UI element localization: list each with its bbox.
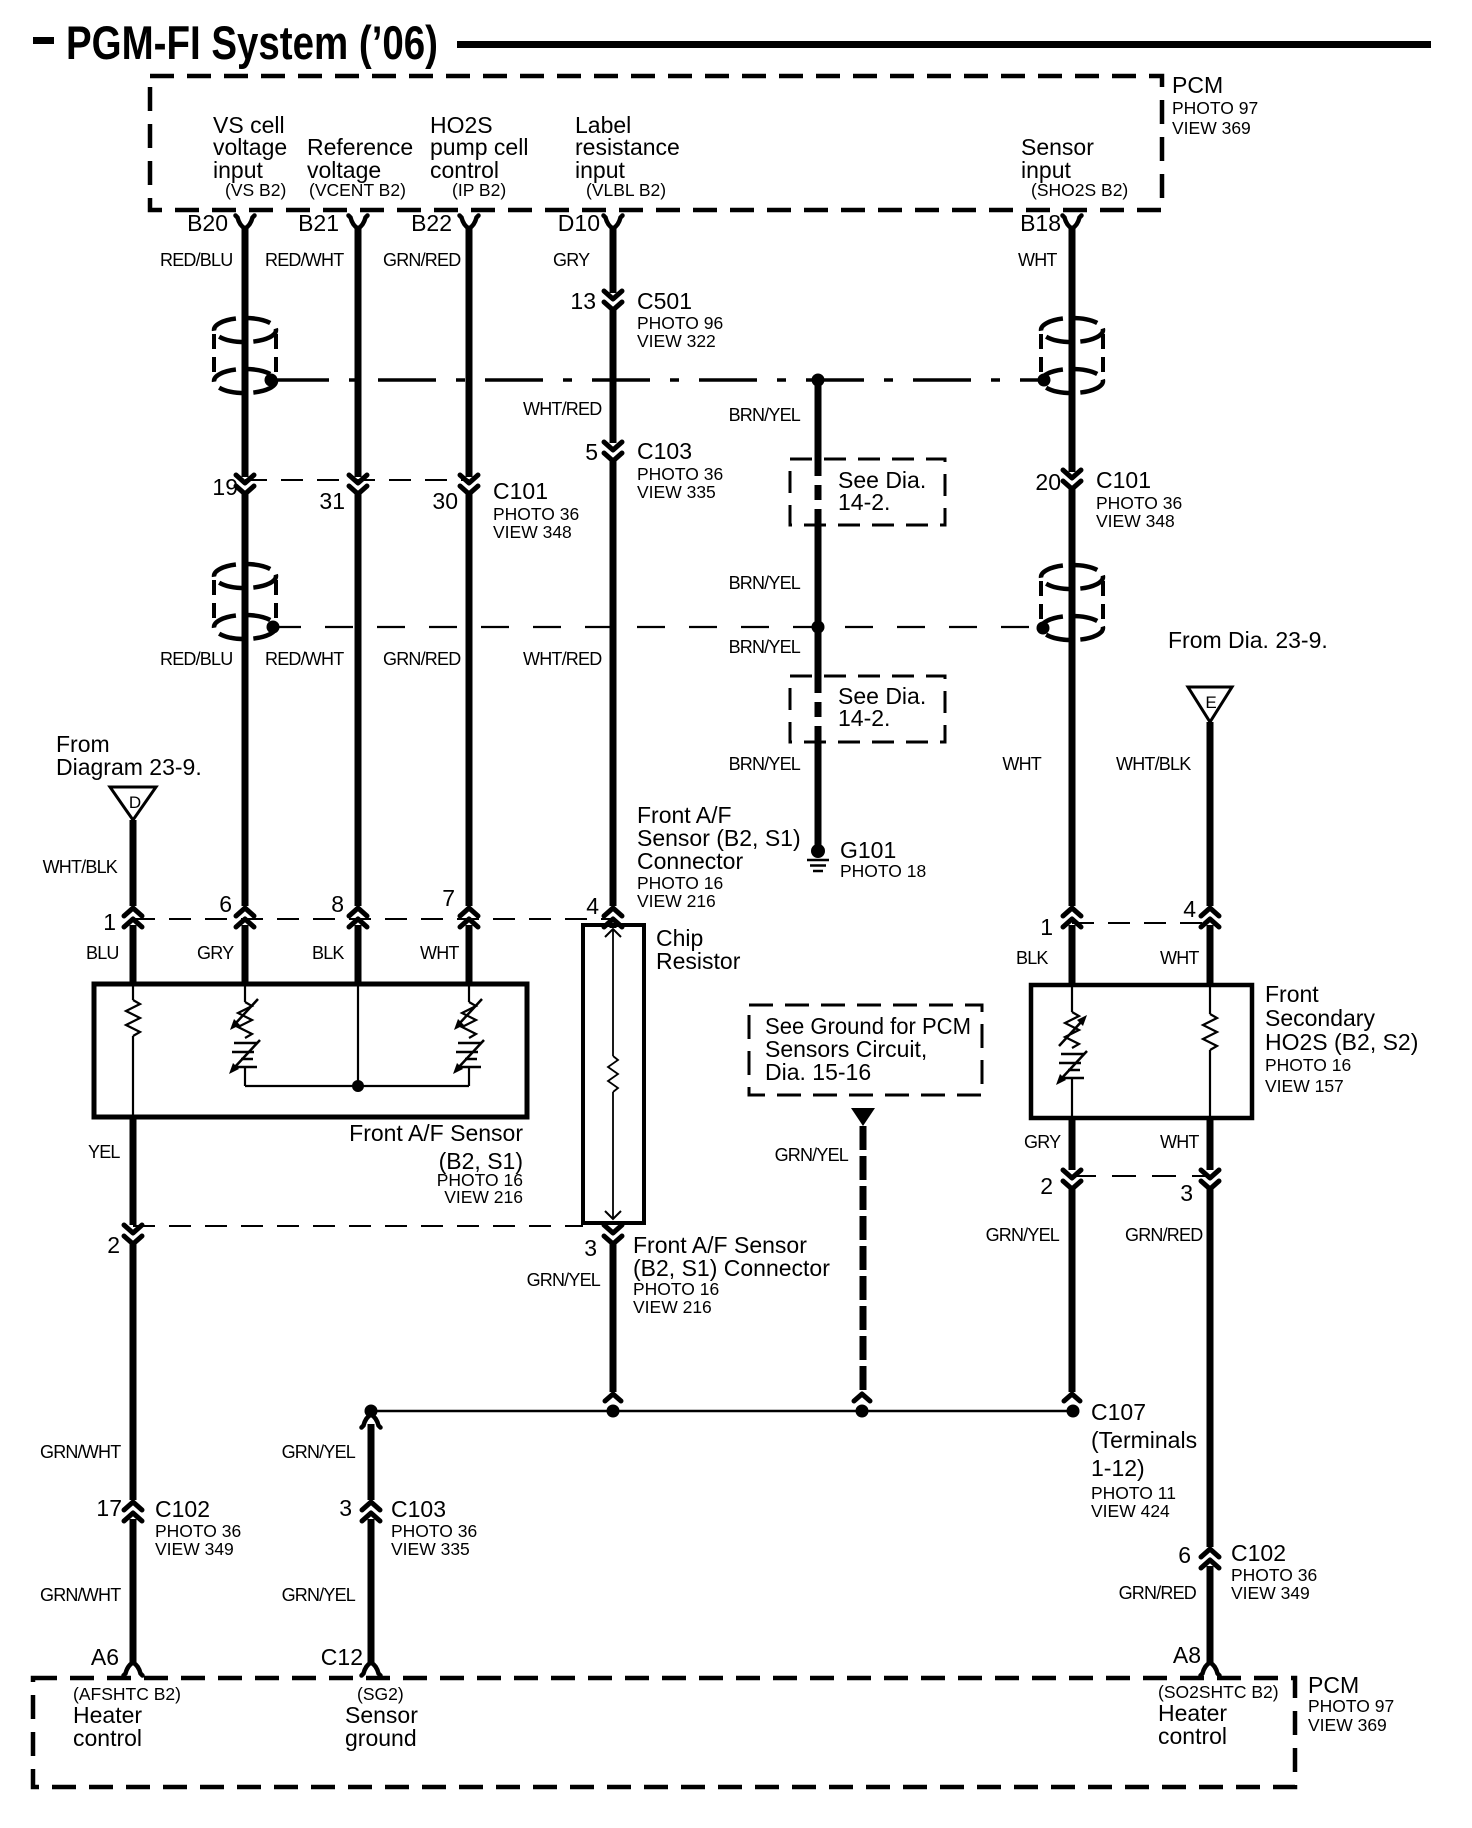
connector C102 label (left) (155, 1496, 241, 1559)
connector C101 label (left) (493, 478, 579, 542)
svg-text:GRN/WHT: GRN/WHT (40, 1585, 121, 1605)
Front A/F Sensor box (94, 984, 527, 1117)
connector C103 label (upper) (637, 438, 723, 502)
wire E segment to HO2S box (1207, 925, 1214, 985)
junction dot BRN/YEL tap (812, 374, 825, 387)
svg-text:3: 3 (1180, 1180, 1193, 1206)
sensor pin row chevrons: pin 8 (B21) (349, 908, 367, 927)
svg-text:WHT/BLK: WHT/BLK (1116, 754, 1191, 774)
svg-text:GRY: GRY (1024, 1132, 1061, 1152)
svg-text:VIEW 322: VIEW 322 (637, 331, 716, 351)
pin B18 terminal fork (1063, 216, 1082, 229)
svg-text:BRN/YEL: BRN/YEL (729, 754, 801, 774)
svg-text:Front A/F Sensor: Front A/F Sensor (349, 1120, 523, 1146)
wire D segment to sensor box (130, 925, 137, 984)
svg-text:YEL: YEL (88, 1142, 120, 1162)
svg-text:VIEW 157: VIEW 157 (1265, 1076, 1344, 1096)
svg-text:C103: C103 (637, 438, 692, 464)
Front A/F Sensor connector label (lower) (633, 1232, 830, 1317)
svg-text:7: 7 (442, 885, 455, 911)
svg-text:GRN/YEL: GRN/YEL (527, 1270, 601, 1290)
svg-text:(VLBL B2): (VLBL B2) (586, 180, 666, 200)
svg-text:Resistor: Resistor (656, 948, 741, 974)
wire GRY to bus (1069, 1189, 1076, 1392)
svg-text:From Dia. 23-9.: From Dia. 23-9. (1168, 627, 1328, 653)
chip resistor internal line with arrows (605, 929, 621, 1219)
svg-text:3: 3 (584, 1235, 597, 1261)
wire D10 segment 2 (610, 310, 617, 443)
wire B18 below box segment (1069, 1118, 1076, 1170)
svg-text:VIEW 424: VIEW 424 (1091, 1501, 1170, 1521)
svg-text:GRN/WHT: GRN/WHT (40, 1442, 121, 1462)
wire B21 middle segment (355, 494, 362, 906)
wire C12 lower segment (368, 1519, 375, 1662)
wire B22 middle segment (466, 494, 473, 906)
wire D10 segment to chip resistor (610, 925, 617, 928)
svg-text:C101: C101 (1096, 467, 1151, 493)
internal junction dot (352, 1080, 364, 1092)
C107 label (1091, 1399, 1197, 1521)
svg-text:WHT: WHT (420, 943, 459, 963)
heater resistor (E column) (1203, 985, 1217, 1118)
svg-text:GRN/YEL: GRN/YEL (282, 1585, 356, 1605)
svg-text:PHOTO 11: PHOTO 11 (1091, 1483, 1176, 1503)
chip resistor box (583, 925, 644, 1223)
bus junction dot (C12) (365, 1405, 378, 1418)
shield cylinder on B18 (upper) (1041, 318, 1103, 393)
svg-text:C501: C501 (637, 288, 692, 314)
svg-text:BRN/YEL: BRN/YEL (729, 405, 801, 425)
Front Secondary HO2S box (1031, 985, 1252, 1118)
svg-text:(VCENT B2): (VCENT B2) (309, 180, 406, 200)
svg-text:14-2.: 14-2. (838, 705, 890, 731)
dashed shield link line (lower) (273, 626, 1043, 628)
svg-text:BLU: BLU (86, 943, 119, 963)
svg-text:C103: C103 (391, 1496, 446, 1522)
svg-text:Diagram 23-9.: Diagram 23-9. (56, 754, 202, 780)
connector C103 chevrons (pin 3, C12) (362, 1502, 380, 1521)
junction dot at B18 cylinder (1038, 374, 1051, 387)
svg-text:WHT/BLK: WHT/BLK (43, 857, 118, 877)
svg-text:PHOTO 97: PHOTO 97 (1172, 98, 1258, 118)
svg-text:G101: G101 (840, 837, 896, 863)
HO2S pin row dashed link (1072, 922, 1210, 924)
pin function label: HO2S pump cell control (IP B2) (430, 112, 528, 200)
svg-text:PHOTO 18: PHOTO 18 (840, 861, 926, 881)
svg-text:PHOTO 36: PHOTO 36 (1231, 1565, 1317, 1585)
svg-text:GRY: GRY (197, 943, 234, 963)
svg-text:C102: C102 (155, 1496, 210, 1522)
svg-text:C107: C107 (1091, 1399, 1146, 1425)
svg-text:(SG2): (SG2) (357, 1684, 404, 1704)
pin A6 fork (124, 1663, 143, 1676)
svg-text:BRN/YEL: BRN/YEL (729, 637, 801, 657)
svg-text:PHOTO 36: PHOTO 36 (391, 1521, 477, 1541)
See Dia. 14-2. box (lower) (790, 676, 945, 742)
pin function label: Label resistance input (VLBL B2) (575, 112, 680, 200)
svg-text:2: 2 (107, 1232, 120, 1258)
svg-text:13: 13 (570, 288, 596, 314)
See Ground for PCM text (765, 1013, 971, 1085)
svg-text:PHOTO 96: PHOTO 96 (637, 313, 723, 333)
svg-text:17: 17 (96, 1495, 122, 1521)
svg-text:VIEW 335: VIEW 335 (391, 1539, 470, 1559)
wire B20 upper segment (242, 227, 249, 477)
svg-text:1: 1 (103, 909, 116, 935)
pin B22 terminal fork (460, 216, 479, 229)
svg-text:GRN/RED: GRN/RED (383, 250, 461, 270)
HO2S pin row chevrons: pin 4 (E) (1201, 908, 1219, 927)
C12 wire start fork (362, 1415, 381, 1428)
wire B22 upper segment (466, 227, 473, 477)
svg-text:D: D (129, 793, 141, 812)
pin D10 terminal fork (604, 216, 623, 229)
svg-text:(SHO2S B2): (SHO2S B2) (1031, 180, 1128, 200)
dash-dot shield link line (271, 378, 1044, 382)
chip resistor pin 3 chevrons (604, 1225, 622, 1244)
wire B21 lower segment to sensor box (355, 925, 362, 984)
From Diagram 23-9. text (left) (56, 731, 202, 780)
svg-text:RED/WHT: RED/WHT (265, 649, 344, 669)
svg-text:RED/BLU: RED/BLU (160, 250, 232, 270)
svg-text:VIEW 369: VIEW 369 (1172, 118, 1251, 138)
svg-text:PHOTO 36: PHOTO 36 (493, 504, 579, 524)
junction dot at B20 cylinder (265, 374, 278, 387)
svg-text:ground: ground (345, 1725, 417, 1751)
svg-text:BLK: BLK (1016, 948, 1048, 968)
svg-text:19: 19 (212, 474, 238, 500)
connector C102 chevrons (pin 17) (124, 1502, 142, 1521)
svg-text:PHOTO 16: PHOTO 16 (1265, 1055, 1351, 1075)
PCM bottom: AFSHTC label (73, 1684, 181, 1751)
svg-text:B18: B18 (1020, 210, 1061, 236)
bus end chevron (dashed wire) (854, 1394, 870, 1401)
wire B18 upper segment (1069, 227, 1076, 472)
wire B18 lower segment to HO2S box (1069, 925, 1076, 985)
PCM box (bottom, dashed) (33, 1678, 1295, 1787)
pin function label: Sensor input (SHO2S B2) (1021, 134, 1128, 200)
svg-text:B21: B21 (298, 210, 339, 236)
wire D lower segment (130, 1117, 137, 1225)
variable sensor element (B18 column) (1056, 985, 1087, 1118)
svg-text:20: 20 (1035, 469, 1061, 495)
svg-text:GRN/YEL: GRN/YEL (282, 1442, 356, 1462)
wire GRN/RED to PCM A8 (1207, 1566, 1214, 1662)
svg-text:Secondary: Secondary (1265, 1005, 1375, 1031)
svg-text:Front: Front (1265, 981, 1319, 1007)
svg-text:BLK: BLK (312, 943, 344, 963)
svg-text:GRN/YEL: GRN/YEL (986, 1225, 1060, 1245)
svg-text:control: control (1158, 1723, 1227, 1749)
wire D upper segment (130, 820, 137, 906)
svg-text:4: 4 (1183, 896, 1196, 922)
junction dot BRN/YEL tap (lower) (812, 621, 825, 634)
reference line (B21 column) (357, 984, 359, 1086)
svg-text:B20: B20 (187, 210, 228, 236)
triangle D symbol (110, 787, 156, 820)
solid triangle arrow below box (851, 1108, 875, 1126)
sensor pin row chevrons: pin 7 (B22) (460, 908, 478, 927)
pin B20 terminal fork (236, 216, 255, 229)
wire B18 middle segment (1069, 489, 1076, 906)
internal junction line (245, 1085, 469, 1087)
sensor pin row chevrons: pin 1 (D wire) (124, 908, 142, 927)
wire C12 upper segment (368, 1424, 375, 1500)
bus junction dot (GRY) (1067, 1405, 1080, 1418)
wire B20 middle segment (242, 494, 249, 906)
svg-text:WHT/RED: WHT/RED (523, 399, 602, 419)
svg-text:VIEW 349: VIEW 349 (155, 1539, 234, 1559)
svg-text:(IP B2): (IP B2) (452, 180, 506, 200)
svg-text:8: 8 (331, 891, 344, 917)
PCM bottom: SO2SHTC label (1158, 1682, 1279, 1749)
svg-text:PHOTO 36: PHOTO 36 (155, 1521, 241, 1541)
svg-text:VIEW 335: VIEW 335 (637, 482, 716, 502)
shield cylinder on B18 (lower) (1041, 565, 1103, 640)
svg-text:(VS B2): (VS B2) (225, 180, 286, 200)
sensor cell resistor (pin 1 column) (126, 984, 140, 1117)
title rule (457, 41, 1431, 48)
PCM box (top, dashed) (150, 76, 1162, 210)
wire D to C102 (130, 1244, 137, 1500)
See Dia. 14-2. text (lower) (838, 683, 926, 731)
bus junction dot (GRN/YEL chip) (607, 1405, 620, 1418)
wire E below box segment (1207, 1118, 1214, 1170)
pin 2/3 dashed link (133, 1225, 583, 1227)
svg-text:GRN/RED: GRN/RED (1125, 1225, 1203, 1245)
svg-text:(Terminals: (Terminals (1091, 1427, 1197, 1453)
svg-text:A8: A8 (1173, 1642, 1201, 1668)
PCM label (bottom right) (1308, 1672, 1394, 1735)
Front A/F Sensor connector label (upper) (637, 802, 801, 911)
dashed GRN/YEL wire (860, 1126, 867, 1391)
svg-text:(AFSHTC B2): (AFSHTC B2) (73, 1684, 181, 1704)
wire BRN/YEL to G101: segment 1 (815, 380, 822, 461)
sensor pin 2 chevrons (D wire) (124, 1225, 142, 1244)
wire GRN/YEL from chip to bus (610, 1244, 617, 1392)
wire B20 lower segment to sensor box (242, 925, 249, 984)
svg-text:3: 3 (339, 1495, 352, 1521)
wire D10 segment 3 (610, 461, 617, 906)
svg-text:WHT: WHT (1160, 1132, 1199, 1152)
wire E upper segment (1207, 722, 1214, 906)
HO2S pin 2/3 dashed link (1072, 1175, 1210, 1177)
connector C101 chevrons pin 30 (460, 475, 478, 494)
svg-text:Dia. 15-16: Dia. 15-16 (765, 1059, 871, 1085)
variable pump element (B22 column) (453, 984, 484, 1086)
See Dia. 14-2. text (upper) (838, 467, 926, 515)
connector C101 chevrons pin 31 (349, 475, 367, 494)
svg-text:GRN/RED: GRN/RED (383, 649, 461, 669)
wire BRN/YEL segment 3 (815, 740, 822, 845)
shield cylinder on B20 (lower) (214, 564, 276, 639)
svg-text:1-12): 1-12) (1091, 1455, 1145, 1481)
svg-text:WHT: WHT (1018, 250, 1057, 270)
svg-text:PCM: PCM (1172, 72, 1223, 98)
Front A/F Sensor box label (349, 1120, 523, 1207)
svg-text:B22: B22 (411, 210, 452, 236)
HO2S pin 3 chevrons (1201, 1170, 1219, 1189)
Chip Resistor label (656, 925, 741, 974)
wire GRN/RED long segment (1207, 1189, 1214, 1547)
svg-text:WHT: WHT (1002, 754, 1041, 774)
svg-text:VIEW 216: VIEW 216 (444, 1187, 523, 1207)
wire D to PCM A6 (130, 1519, 137, 1662)
svg-text:HO2S (B2, S2): HO2S (B2, S2) (1265, 1029, 1418, 1055)
svg-text:D10: D10 (558, 210, 600, 236)
HO2S pin row chevrons: pin 1 (B18) (1063, 908, 1081, 927)
connector C102 chevrons (pin 6, right) (1201, 1549, 1219, 1568)
ground bus line (371, 1410, 1074, 1413)
G101 label (840, 837, 926, 881)
pin function label: VS cell voltage input (VS B2) (213, 112, 287, 200)
bus junction dot (GRN/YEL dashed) (856, 1405, 869, 1418)
svg-text:PHOTO 97: PHOTO 97 (1308, 1696, 1394, 1716)
connector C501 label (637, 288, 723, 351)
connector C102 label (right) (1231, 1540, 1317, 1603)
svg-text:WHT: WHT (1160, 948, 1199, 968)
sensor pin row chevrons: pin 6 (B20) (236, 908, 254, 927)
See Ground for PCM box (749, 1005, 982, 1095)
svg-text:RED/WHT: RED/WHT (265, 250, 344, 270)
svg-text:PHOTO 16: PHOTO 16 (637, 873, 723, 893)
pin C12 fork (362, 1663, 381, 1676)
svg-text:31: 31 (319, 488, 345, 514)
wire BRN/YEL dashed through box 2 (815, 678, 822, 740)
svg-text:4: 4 (586, 893, 599, 919)
junction dot at B20 lower cylinder (267, 621, 280, 634)
ground G101 symbol (807, 844, 829, 871)
connector C101 label (right) (1096, 467, 1182, 531)
svg-text:(SO2SHTC B2): (SO2SHTC B2) (1158, 1682, 1279, 1702)
wire B21 upper segment (355, 227, 362, 477)
svg-text:2: 2 (1040, 1173, 1053, 1199)
wire D10 segment 1 (610, 227, 617, 293)
svg-text:VIEW 348: VIEW 348 (493, 522, 572, 542)
svg-text:A6: A6 (91, 1644, 119, 1670)
pin A8 fork (1201, 1663, 1220, 1676)
svg-text:VIEW 216: VIEW 216 (637, 891, 716, 911)
svg-text:VIEW 369: VIEW 369 (1308, 1715, 1387, 1735)
svg-text:C102: C102 (1231, 1540, 1286, 1566)
See Dia. 14-2. box (upper) (790, 459, 945, 525)
svg-text:GRN/RED: GRN/RED (1119, 1583, 1197, 1603)
bus end chevron (GRN/YEL) (605, 1394, 621, 1401)
svg-text:1: 1 (1040, 914, 1053, 940)
svg-text:VIEW 348: VIEW 348 (1096, 511, 1175, 531)
svg-text:C101: C101 (493, 478, 548, 504)
sensor pin row dashed link (left) (133, 918, 613, 920)
svg-text:6: 6 (219, 891, 232, 917)
wire BRN/YEL dashed through box 1 (815, 461, 822, 523)
connector C501 chevrons (pin 13) (604, 291, 622, 310)
sensor pin row chevrons: pin 4 (D10) (604, 908, 622, 927)
svg-text:PCM: PCM (1308, 1672, 1359, 1698)
svg-text:14-2.: 14-2. (838, 489, 890, 515)
PCM label (top right) (1172, 72, 1258, 138)
Front Secondary HO2S label (1265, 981, 1418, 1096)
svg-text:C12: C12 (321, 1644, 363, 1670)
svg-text:E: E (1205, 693, 1216, 712)
svg-text:PHOTO 16: PHOTO 16 (633, 1279, 719, 1299)
triangle E symbol (1188, 687, 1232, 722)
svg-text:VIEW 349: VIEW 349 (1231, 1583, 1310, 1603)
svg-text:PHOTO 36: PHOTO 36 (637, 464, 723, 484)
variable cell element (B20 column) (229, 984, 260, 1086)
svg-text:RED/BLU: RED/BLU (160, 649, 232, 669)
pin B21 terminal fork (349, 216, 368, 229)
svg-text:5: 5 (585, 439, 598, 465)
svg-text:VIEW 216: VIEW 216 (633, 1297, 712, 1317)
svg-text:Connector: Connector (637, 848, 743, 874)
svg-text:6: 6 (1178, 1542, 1191, 1568)
junction dot at B18 lower cylinder (1037, 622, 1050, 635)
svg-text:(B2, S1) Connector: (B2, S1) Connector (633, 1255, 830, 1281)
connector C103 chevrons (pin 5) (604, 442, 622, 461)
svg-text:BRN/YEL: BRN/YEL (729, 573, 801, 593)
connector C101 chevrons pin 20 (B18) (1063, 470, 1081, 489)
svg-text:GRY: GRY (553, 250, 590, 270)
HO2S pin 2 chevrons (1063, 1170, 1081, 1189)
wire B22 lower segment to sensor box (466, 925, 473, 984)
svg-text:control: control (73, 1725, 142, 1751)
bus end chevron (GRY wire) (1064, 1394, 1080, 1401)
svg-text:WHT/RED: WHT/RED (523, 649, 602, 669)
connector C101 chevrons pin 19 (236, 475, 254, 494)
svg-text:PHOTO 36: PHOTO 36 (1096, 493, 1182, 513)
svg-text:GRN/YEL: GRN/YEL (775, 1145, 849, 1165)
shield cylinder on B20 (upper) (214, 318, 276, 393)
pin function label: Reference voltage (VCENT B2) (307, 134, 413, 200)
C101 pin link dashed line (245, 479, 469, 481)
title dash (33, 37, 54, 44)
svg-text:30: 30 (432, 488, 458, 514)
connector C103 label (lower) (391, 1496, 477, 1559)
svg-text:PGM-FI System (’06): PGM-FI System (’06) (66, 16, 438, 69)
PCM bottom: SG2 label (345, 1684, 418, 1751)
wire BRN/YEL segment 2 (815, 523, 822, 678)
